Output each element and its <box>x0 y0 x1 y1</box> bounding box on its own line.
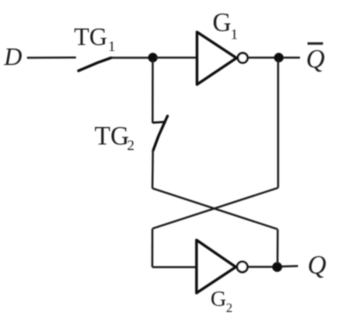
wire TG1 to node A <box>110 57 150 59</box>
node B junction dot <box>274 53 284 63</box>
wire to G2 input <box>152 266 196 268</box>
wire D to TG1 <box>27 57 76 59</box>
wire node B to Qbar <box>283 57 300 59</box>
wire left-bottom corner down to G2 input level <box>151 229 153 268</box>
wire node Q to Q label <box>282 265 298 268</box>
svg-text:2: 2 <box>127 138 135 154</box>
inverter G2 bubble <box>237 262 247 272</box>
svg-text:1: 1 <box>108 39 116 55</box>
svg-text:Q: Q <box>306 45 325 74</box>
svg-text:1: 1 <box>231 27 239 43</box>
transmission gate TG2 switch <box>153 121 166 124</box>
inverter G2 triangle <box>197 240 236 293</box>
inverter G1 bubble <box>238 53 248 63</box>
wire node B down to cross corner <box>277 60 279 188</box>
wire node A down to TG2 <box>152 60 154 123</box>
wire cross diagonal right-top to left-bottom <box>153 188 279 229</box>
wire right-bottom corner down to node Q <box>277 229 279 264</box>
svg-text:TG: TG <box>74 24 107 51</box>
svg-text:G: G <box>213 8 232 37</box>
svg-text:G: G <box>211 286 227 311</box>
node A junction dot <box>148 53 158 63</box>
op-amp style inverter G1 triangle <box>197 32 237 85</box>
wire G2 output to node Q <box>248 266 274 268</box>
svg-text:2: 2 <box>226 300 233 315</box>
wire node A to G1 input <box>155 57 197 59</box>
node Qbar output label <box>308 42 324 44</box>
wire G1 output to node B <box>248 57 276 59</box>
wire TG2 down to cross corner <box>151 150 154 188</box>
wire cross diagonal left-top to right-bottom <box>152 188 277 229</box>
svg-text:Q: Q <box>308 251 327 280</box>
transmission gate TG1 switch arm <box>79 58 112 71</box>
svg-text:D: D <box>3 44 22 71</box>
node Q junction dot <box>272 262 282 272</box>
svg-text:TG: TG <box>95 122 130 151</box>
